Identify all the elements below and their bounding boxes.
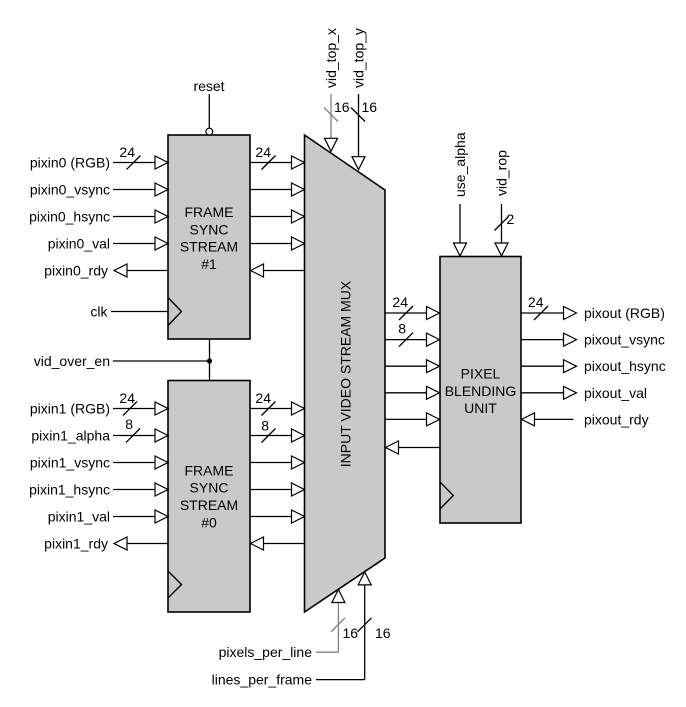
mux U2 INPUT VIDEO STREAM MUX [305,135,386,612]
signal pixin1_alpha bus 8 [31,416,168,444]
svg-text:pixin0_hsync: pixin0_hsync [29,209,110,225]
signal lines_per_frame bus 16 [212,572,391,688]
wire mux to PBU bus 8 [385,321,440,347]
signal pixin0_rdy output [44,263,168,279]
svg-text:FRAME: FRAME [185,462,234,478]
svg-text:BLENDING: BLENDING [445,383,517,399]
svg-text:vid_top_y: vid_top_y [351,28,367,88]
svg-text:vid_rop: vid_rop [494,150,510,196]
signal pixin1 (RGB) bus 24 [30,390,168,417]
svg-text:vid_top_x: vid_top_x [323,28,339,88]
svg-text:pixin0_rdy: pixin0_rdy [44,263,108,279]
svg-text:pixin0_vsync: pixin0_vsync [30,182,110,198]
signal pixin0_vsync [30,182,168,198]
wire U1 to mux hsync [250,210,305,223]
svg-text:STREAM: STREAM [180,239,238,255]
block U1 FRAME SYNC STREAM #1 [168,135,250,339]
block U0 FRAME SYNC STREAM #0 [168,381,250,613]
svg-text:pixin1_vsync: pixin1_vsync [30,455,110,471]
wire mux to PBU val [385,386,440,399]
signal pixin0 (RGB) bus 24 [30,144,168,171]
wire U1 to mux vsync [250,183,305,196]
wire PBU to mux rdy return [386,441,441,454]
svg-text:8: 8 [125,416,133,432]
signal vid_top_y bus 16 [351,28,378,170]
svg-text:reset: reset [193,78,224,94]
svg-text:pixin1_val: pixin1_val [48,509,110,525]
signal pixout (RGB) bus 24 [521,294,665,321]
svg-text:8: 8 [261,418,269,434]
svg-text:#0: #0 [201,514,217,530]
svg-text:24: 24 [392,294,408,310]
svg-text:SYNC: SYNC [190,480,229,496]
svg-text:16: 16 [334,99,350,115]
signal pixout_rdy input [522,411,649,427]
signal pixin0_val [48,236,168,252]
wire mux to U1 rdy return [251,264,305,277]
svg-text:INPUT VIDEO STREAM MUX: INPUT VIDEO STREAM MUX [338,280,354,467]
svg-text:8: 8 [398,321,406,337]
svg-text:24: 24 [528,294,544,310]
svg-text:lines_per_frame: lines_per_frame [212,672,313,688]
svg-text:PIXEL: PIXEL [461,366,501,382]
svg-text:pixin0_val: pixin0_val [48,236,110,252]
signal pixin1_val [48,509,168,525]
clock chevron U3 [440,482,453,509]
svg-text:2: 2 [507,211,515,227]
signal pixout_vsync [521,332,665,348]
svg-text:24: 24 [119,390,135,406]
svg-text:24: 24 [255,390,271,406]
signal vid_over_en with junction dot [34,353,212,369]
wire U0 to mux vsync [250,456,305,469]
block U3 PIXEL BLENDING UNIT [440,257,521,524]
svg-text:vid_over_en: vid_over_en [34,353,110,369]
svg-text:pixin1 (RGB): pixin1 (RGB) [30,401,110,417]
svg-text:16: 16 [362,99,378,115]
wire U1 to mux bus 24 [250,144,305,170]
wire U0 to mux bus 24 [250,390,305,416]
wire U0 to mux bus 8 [250,418,305,443]
svg-text:pixels_per_line: pixels_per_line [219,644,313,660]
wire mux to PBU bus 24 [385,294,440,320]
svg-text:use_alpha: use_alpha [452,132,468,197]
svg-text:pixout_vsync: pixout_vsync [584,332,665,348]
signal pixin1_rdy output [44,536,168,552]
svg-text:#1: #1 [201,256,217,272]
signal pixin1_hsync [29,482,168,498]
svg-text:pixout (RGB): pixout (RGB) [584,305,665,321]
signal vid_top_x bus 16 (gray wire) [323,28,350,151]
wire U0 to mux val [250,510,305,523]
svg-text:16: 16 [375,625,391,641]
wire U0 to mux hsync [250,483,305,496]
svg-text:STREAM: STREAM [180,497,238,513]
svg-text:pixin1_hsync: pixin1_hsync [29,482,110,498]
svg-text:pixin0 (RGB): pixin0 (RGB) [30,155,110,171]
signal pixout_hsync [521,358,666,374]
signal pixin1_vsync [30,455,168,471]
wire U1 to mux val [250,237,305,250]
svg-text:pixout_rdy: pixout_rdy [584,411,649,427]
svg-text:24: 24 [119,144,135,160]
svg-text:pixin1_rdy: pixin1_rdy [44,536,108,552]
svg-text:clk: clk [90,304,108,320]
signal pixout_val [521,385,647,401]
svg-text:UNIT: UNIT [464,400,497,416]
signal vid_rop bus 2 [494,150,515,256]
signal pixels_per_line bus 16 (gray wire) [219,590,359,661]
svg-text:24: 24 [255,144,271,160]
signal reset wire and active-low bubble [193,78,224,135]
svg-text:pixout_hsync: pixout_hsync [584,358,666,374]
svg-text:SYNC: SYNC [190,221,229,237]
wire mux to U0 rdy return [251,537,305,550]
signal pixin0_hsync [29,209,168,225]
wire mux to PBU vsync [385,360,440,373]
signal clk into U1 clock chevron [90,298,181,326]
svg-text:pixout_val: pixout_val [584,385,647,401]
wire mux to PBU fifth [385,413,440,426]
svg-text:pixin1_alpha: pixin1_alpha [31,428,110,444]
svg-text:16: 16 [343,625,359,641]
svg-text:FRAME: FRAME [185,204,234,220]
wire U1 bottom to U0 top [209,339,211,381]
clock chevron U0 [168,571,182,598]
signal use_alpha [452,132,468,256]
